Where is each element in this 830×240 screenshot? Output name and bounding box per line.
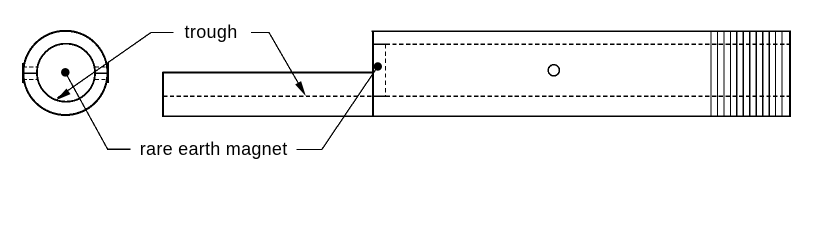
hole in body	[548, 65, 559, 76]
magnet pocket hidden vertical	[385, 44, 387, 96]
side view: main body left edge	[372, 30, 374, 117]
end view inner circle left/right arc patches	[36, 66, 38, 80]
magnet leader left (to end view dot)	[65, 72, 130, 149]
end view outer circle	[23, 31, 107, 115]
trough leader left arrowhead	[56, 89, 71, 101]
trough hidden line upper: visible stub	[372, 43, 385, 45]
trough leader right arrowhead	[295, 81, 306, 96]
trough hidden line lower: visible stub	[372, 95, 385, 97]
svg-text:rare earth magnet: rare earth magnet	[140, 139, 288, 159]
rare earth magnet dot (end view center)	[61, 68, 70, 77]
side view: trough half-section top edge	[162, 72, 372, 74]
trough hidden line lower: dashed through trough section	[163, 95, 372, 97]
trough hidden line upper: dashed	[386, 43, 791, 45]
side view: main body right edge	[789, 30, 791, 117]
end view outer circle left/right arc patches	[22, 63, 24, 83]
side view: trough half-section left edge	[162, 72, 164, 117]
side view: main body top edge	[372, 30, 791, 32]
magnet leader right (to side view dot)	[296, 67, 378, 150]
trough hidden line lower: dashed	[386, 95, 791, 97]
trough floor line, left side of annulus	[22, 72, 38, 74]
trough slot hidden lines, right side of annulus	[95, 67, 109, 80]
rare earth magnet dot (side view)	[374, 62, 382, 70]
trough slot hidden lines, left side of annulus	[23, 67, 38, 80]
svg-text:trough: trough	[185, 22, 238, 42]
side view: bottom edge (full length)	[162, 115, 791, 117]
trough leader right (to side view)	[251, 33, 304, 94]
trough floor line, right side of annulus	[95, 72, 109, 74]
trough leader left (to end view)	[58, 33, 174, 98]
knurled end hatch lines	[711, 31, 782, 116]
end view inner circle (bore)	[37, 44, 95, 102]
